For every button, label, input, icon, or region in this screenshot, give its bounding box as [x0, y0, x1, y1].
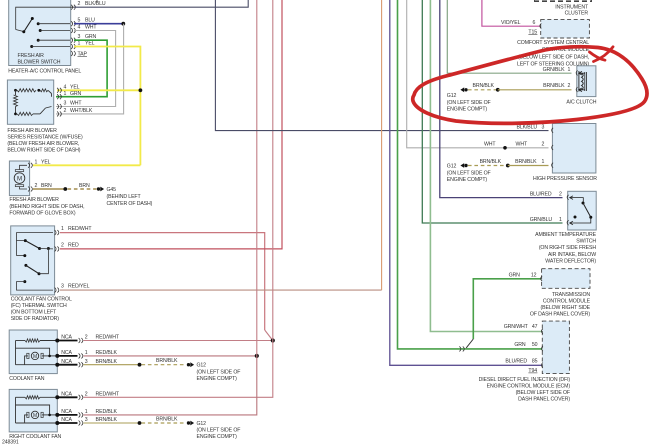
svg-text:1: 1 [85, 409, 88, 415]
wire VIO/YEL vertical x482 to comfort module [482, 0, 540, 26]
svg-text:1: 1 [85, 350, 88, 356]
wire BLK/BLU vertical x215 to high pressure sensor pin 3 [215, 0, 548, 131]
svg-text:BRN/BLK: BRN/BLK [96, 417, 118, 423]
svg-text:3: 3 [78, 34, 81, 40]
svg-text:12: 12 [531, 272, 537, 278]
wire BRN/BLK right fan pin 3 [84, 422, 140, 424]
svg-text:ENGINE COMPT): ENGINE COMPT) [197, 376, 238, 382]
ECM pin connectors [541, 329, 543, 368]
svg-text:BLK/BLU: BLK/BLU [85, 1, 106, 7]
svg-text:ENGINE COMPT): ENGINE COMPT) [447, 177, 488, 183]
svg-text:TRANSMISSION: TRANSMISSION [552, 292, 590, 298]
svg-text:FRESH AIR BLOWER: FRESH AIR BLOWER [9, 197, 59, 203]
svg-text:(BEHIND LEFT: (BEHIND LEFT [107, 194, 142, 200]
svg-text:BRN/BLK: BRN/BLK [156, 358, 178, 364]
ground G12 (A/C clutch) [460, 87, 464, 92]
wire BRN/BLK coolant fan pin 3 [84, 364, 140, 366]
svg-text:ENGINE COMPT): ENGINE COMPT) [197, 434, 238, 440]
svg-text:6: 6 [533, 20, 536, 26]
svg-text:(BEHIND RIGHT SIDE OF DASH,: (BEHIND RIGHT SIDE OF DASH, [9, 204, 84, 210]
coolant fan control (FC) thermal switch box [11, 226, 55, 295]
svg-text:1: 1 [542, 159, 545, 165]
splice dot WHT [503, 146, 507, 150]
coolant fan [9, 330, 57, 382]
wire GRN from switch pin 3 to resistor pin 1 [56, 40, 107, 96]
fresh air blower motor box [9, 161, 29, 196]
wire YEL from switch pin 1 [74, 47, 140, 166]
svg-text:(ON LEFT SIDE OF: (ON LEFT SIDE OF [197, 428, 241, 434]
A/C clutch pin connectors [576, 70, 578, 92]
svg-text:47: 47 [532, 324, 538, 330]
svg-text:FRESH AIR: FRESH AIR [18, 53, 45, 59]
label COMFORT SYSTEM CENTRAL CONTROL MODULE [517, 40, 590, 67]
wire BLU from switch pin 5 [74, 23, 123, 25]
svg-text:1: 1 [559, 217, 562, 223]
svg-text:5: 5 [78, 18, 81, 24]
svg-text:NCA: NCA [61, 335, 72, 341]
svg-text:1: 1 [568, 67, 571, 73]
svg-text:WHT: WHT [70, 101, 82, 107]
svg-text:WHT/BLK: WHT/BLK [70, 108, 93, 114]
right coolant fan pin 2 stub + NCA [55, 392, 120, 400]
svg-text:BRN/BLK: BRN/BLK [96, 359, 118, 365]
svg-text:YEL: YEL [41, 159, 51, 165]
svg-text:BLU/RED: BLU/RED [530, 191, 552, 197]
svg-text:(ON LEFT SIDE OF: (ON LEFT SIDE OF [197, 369, 241, 375]
svg-text:(BELOW FRESH AIR BLOWER,: (BELOW FRESH AIR BLOWER, [7, 141, 79, 147]
svg-text:1: 1 [64, 91, 67, 97]
svg-text:NCA: NCA [61, 409, 72, 415]
svg-text:BLK/BLU: BLK/BLU [517, 125, 538, 131]
wire WHT/BLK vertical to resistor pin 2 [56, 24, 124, 114]
svg-text:FRESH AIR BLOWER: FRESH AIR BLOWER [7, 128, 57, 134]
ground G45 [97, 187, 100, 190]
svg-text:2: 2 [85, 335, 88, 341]
svg-text:(ON BOTTOM LEFT: (ON BOTTOM LEFT [11, 310, 57, 316]
black tap diagonal GRN [466, 339, 473, 348]
svg-text:G12: G12 [447, 93, 457, 99]
svg-text:BLOWER SWITCH: BLOWER SWITCH [18, 60, 61, 66]
ground G12 fan2 [187, 421, 190, 424]
instrument cluster dashed edge [534, 0, 592, 2]
svg-text:(ON LEFT SIDE OF: (ON LEFT SIDE OF [447, 170, 491, 176]
svg-text:WATER DEFLECTOR): WATER DEFLECTOR) [545, 259, 596, 265]
svg-text:4: 4 [78, 25, 81, 31]
engine control module dashed box [542, 321, 569, 374]
svg-text:RED: RED [68, 243, 79, 249]
wire RED/WHT vertical x273 [272, 0, 274, 341]
svg-text:3: 3 [85, 417, 88, 423]
fresh air blower series resistance box [7, 80, 53, 124]
splice dot BRN/BLK fan2 [138, 421, 142, 425]
svg-text:CENTER OF DASH): CENTER OF DASH) [107, 201, 153, 207]
svg-text:COOLANT FAN CONTROL: COOLANT FAN CONTROL [11, 297, 72, 303]
fresh air blower switch (HEATER-A/C CONTROL PANEL) [9, 0, 74, 66]
wire BRN from motor pin 2 [33, 188, 65, 190]
wire RED/WHT thermal pin 1 [60, 233, 265, 330]
svg-text:2: 2 [64, 108, 67, 114]
label TRANSMISSION CONTROL MODULE [530, 292, 591, 318]
svg-text:BRN/BLK: BRN/BLK [515, 159, 537, 165]
wire YEL resistor pin 4 to junction [57, 89, 140, 91]
svg-text:RED/WHT: RED/WHT [96, 335, 120, 341]
ambient switch pin connectors [567, 195, 569, 225]
TCM pin connector [541, 276, 543, 281]
svg-text:85: 85 [532, 358, 538, 364]
svg-text:FORWARD OF GLOVE BOX): FORWARD OF GLOVE BOX) [9, 211, 75, 217]
svg-text:3: 3 [542, 125, 545, 131]
transmission control module dashed box [542, 269, 590, 289]
svg-text:2: 2 [542, 142, 545, 148]
svg-text:(BELOW RIGHT SIDE: (BELOW RIGHT SIDE [541, 305, 591, 311]
fresh air blower switch pin connectors [71, 5, 75, 56]
svg-text:BRN: BRN [79, 183, 90, 189]
svg-text:CLUSTER: CLUSTER [565, 10, 589, 16]
label G12 clutch [447, 93, 491, 112]
svg-text:GRN: GRN [509, 272, 521, 278]
wire GRN/BLK vertical x447 to A/C clutch pin 1 [447, 0, 571, 73]
wire WHT from switch pin 4 to resistor pin 3 [56, 31, 116, 107]
label FRESH AIR BLOWER SERIES RESISTANCE [7, 128, 83, 154]
A/C clutch box [577, 66, 596, 97]
svg-text:GRN: GRN [85, 34, 97, 40]
svg-text:BELOW RIGHT SIDE OF DASH): BELOW RIGHT SIDE OF DASH) [7, 147, 80, 153]
label G12 fan2 [197, 421, 241, 440]
wire BRN dashed to G45 [68, 188, 97, 190]
svg-text:GRN: GRN [70, 91, 82, 97]
label INSTRUMENT CLUSTER [555, 4, 589, 16]
splice dot BLU/WHT-BLK [121, 22, 125, 26]
svg-text:2: 2 [568, 83, 571, 89]
wire BLU/RED vertical x440 to ambient switch pin 2 [440, 0, 563, 198]
svg-text:YEL: YEL [70, 84, 80, 90]
wire RED/YEL thermal pin 3 [60, 289, 382, 291]
svg-text:BLU: BLU [85, 18, 95, 24]
label AMBIENT TEMPERATURE SWITCH [535, 232, 597, 265]
svg-text:RED/BLK: RED/BLK [96, 409, 118, 415]
svg-text:1: 1 [35, 159, 38, 165]
wire BRN/BLK solid to sensor pin 1 [508, 165, 549, 167]
wire RED/WHT coolant fan pin 2 [84, 340, 273, 342]
svg-text:BRN/BLK: BRN/BLK [473, 83, 495, 89]
wire GRN/BLU vertical x422 to ambient switch pin 1 [422, 0, 562, 223]
svg-text:3: 3 [64, 101, 67, 107]
svg-text:GRN/BLU: GRN/BLU [530, 217, 553, 223]
wire GRN/WHT vertical x430 to ECM pin 47 [430, 0, 542, 332]
svg-text:(ON RIGHT SIDE FRESH: (ON RIGHT SIDE FRESH [539, 245, 597, 251]
svg-text:(ON LEFT SIDE OF: (ON LEFT SIDE OF [447, 100, 491, 106]
label G45 (BEHIND LEFT CENTER OF DASH) [107, 187, 153, 207]
svg-text:50: 50 [532, 342, 538, 348]
svg-text:HEATER-A/C CONTROL PANEL: HEATER-A/C CONTROL PANEL [8, 69, 81, 75]
coolant fan pin 3 stub + NCA [55, 359, 117, 367]
svg-text:COOLANT FAN: COOLANT FAN [9, 376, 45, 382]
svg-text:M: M [33, 413, 37, 419]
svg-text:2: 2 [559, 191, 562, 197]
sensor pin connectors [552, 128, 554, 168]
svg-text:WHT: WHT [516, 142, 528, 148]
high pressure sensor box [552, 124, 596, 174]
series resistance pin connectors [57, 88, 61, 117]
svg-text:NCA: NCA [61, 417, 72, 423]
red hand-drawn annotation circle around A/C clutch [413, 47, 647, 124]
svg-text:1: 1 [61, 226, 64, 232]
wire BRN/BLK dashed (sensor) [468, 165, 508, 167]
blower motor pin connectors [28, 163, 32, 192]
wire GRN branch to TCM pin 12 [473, 279, 541, 339]
wire GRN vertical x397 to ECM pin 50 [398, 0, 543, 349]
svg-text:M: M [17, 176, 22, 183]
svg-text:NCA: NCA [61, 359, 72, 365]
svg-text:3: 3 [85, 359, 88, 365]
label G12 fan1 [197, 363, 241, 382]
splice dot BRN [63, 187, 67, 191]
svg-text:RED/BLK: RED/BLK [96, 350, 118, 356]
right coolant fan pin 1 stub + NCA [55, 409, 117, 417]
splice dot BRN/BLK fan1 [138, 363, 142, 367]
wire BLU/RED vertical x390 to ECM pin 85 [390, 0, 543, 365]
wire BRN/BLK dashed fan2 [142, 422, 187, 424]
svg-text:VIO/YEL: VIO/YEL [501, 20, 521, 26]
svg-text:G12: G12 [197, 363, 207, 369]
svg-text:3: 3 [61, 284, 64, 290]
svg-text:AMBIENT TEMPERATURE: AMBIENT TEMPERATURE [535, 232, 597, 238]
svg-text:M: M [33, 354, 37, 360]
wire WHT vertical x407 to sensor pin 2 [407, 0, 549, 148]
ambient temperature switch box [568, 191, 597, 230]
svg-text:DASH PANEL COVER): DASH PANEL COVER) [518, 397, 570, 403]
coolant fan pin 2 stub + NCA [55, 335, 120, 343]
svg-text:BRN: BRN [41, 183, 52, 189]
junction dot RED/BLK [255, 354, 259, 358]
svg-text:2: 2 [85, 392, 88, 398]
svg-text:RED/WHT: RED/WHT [96, 392, 120, 398]
svg-text:WHT: WHT [484, 142, 496, 148]
wire BRN/BLK solid to clutch pin 2 [498, 89, 572, 91]
svg-text:2: 2 [61, 243, 64, 249]
svg-text:WHT: WHT [85, 25, 97, 31]
thermal switch pin connectors [55, 230, 59, 293]
wire RED/BLK coolant fan pin 1 [84, 355, 257, 357]
svg-text:GRN/BLK: GRN/BLK [543, 67, 566, 73]
wire RED/WHT diagonal into junction [265, 330, 273, 341]
wire BRN/BLK dashed fan1 [142, 364, 187, 366]
svg-text:DIESEL DIRECT FUEL INJECTION (: DIESEL DIRECT FUEL INJECTION (DFI) [479, 377, 571, 383]
label FRESH AIR BLOWER location [9, 197, 84, 216]
label DIESEL DIRECT FUEL INJECTION ECM [479, 377, 571, 403]
ground G12 fan1 [187, 363, 190, 366]
junction dot YEL [139, 88, 143, 92]
svg-text:OF DASH PANEL COVER): OF DASH PANEL COVER) [530, 312, 591, 318]
splice dot BRN/BLK sensor [506, 164, 510, 168]
svg-text:248391: 248391 [2, 440, 19, 444]
label COOLANT FAN CONTROL THERMAL SWITCH [11, 297, 72, 323]
svg-text:NCA: NCA [61, 350, 72, 356]
svg-text:RED/WHT: RED/WHT [68, 226, 92, 232]
right coolant fan [9, 389, 61, 440]
svg-text:2: 2 [78, 1, 81, 7]
svg-text:AIR INTAKE, BELOW: AIR INTAKE, BELOW [548, 252, 596, 258]
svg-text:BLU/RED: BLU/RED [505, 358, 527, 364]
svg-text:(BELOW LEFT SIDE OF: (BELOW LEFT SIDE OF [516, 390, 570, 396]
svg-text:HIGH PRESSURE SENSOR: HIGH PRESSURE SENSOR [533, 176, 597, 182]
svg-text:SERIES RESISTANCE (W/FUSE): SERIES RESISTANCE (W/FUSE) [7, 134, 83, 140]
splice dot BRN/BLK clutch [496, 88, 500, 92]
comfort module pin connector [540, 23, 542, 28]
wire RED/WHT vertical x273 lower + right fan pin 2 [84, 341, 273, 398]
svg-text:ENGINE CONTROL MODULE (ECM): ENGINE CONTROL MODULE (ECM) [487, 384, 571, 390]
svg-text:BRN/BLK: BRN/BLK [480, 159, 502, 165]
right coolant fan pin 3 stub + NCA [55, 417, 117, 425]
svg-text:BRN/BLK: BRN/BLK [543, 83, 565, 89]
label G12 sensor [447, 163, 491, 183]
svg-text:4: 4 [64, 84, 67, 90]
svg-text:(FC) THERMAL SWITCH: (FC) THERMAL SWITCH [11, 303, 67, 309]
svg-text:G12: G12 [197, 421, 207, 427]
ground G12 (sensor) [460, 163, 464, 168]
svg-text:2: 2 [35, 183, 38, 189]
coolant fan pin 1 stub + NCA [55, 350, 117, 358]
wire RED/BLK vertical lower + right fan pin 1 [84, 356, 257, 415]
svg-text:SWITCH: SWITCH [576, 239, 596, 245]
svg-text:G12: G12 [447, 163, 457, 169]
wire BLK/BLU from switch pin 2 [74, 0, 248, 7]
junction dot RED/WHT [271, 338, 275, 342]
svg-text:BRN/BLK: BRN/BLK [156, 417, 178, 423]
svg-text:CONTROL MODULE: CONTROL MODULE [543, 299, 591, 305]
svg-text:ENGINE COMPT): ENGINE COMPT) [447, 106, 488, 112]
wire RED thermal pin 2 [60, 0, 282, 249]
svg-text:SIDE OF RADIATOR): SIDE OF RADIATOR) [11, 316, 60, 322]
svg-text:A/C CLUTCH: A/C CLUTCH [566, 100, 596, 106]
comfort system central control module dashed box [541, 20, 590, 38]
partial pin mark top [96, 0, 98, 2]
svg-text:GRN/WHT: GRN/WHT [504, 324, 529, 330]
wire RED/BLK vertical x257 [256, 0, 258, 356]
svg-text:RED/YEL: RED/YEL [68, 284, 90, 290]
svg-text:GRN: GRN [514, 342, 526, 348]
wire BRN/BLK dashed (clutch) [468, 89, 498, 91]
svg-text:G45: G45 [107, 187, 117, 193]
wire RED/YEL vertical x382 [381, 0, 383, 290]
svg-text:NCA: NCA [61, 392, 72, 398]
inline connector on GRN 50 wire [459, 346, 464, 351]
wire YEL to blower motor pin 1 [33, 164, 140, 166]
